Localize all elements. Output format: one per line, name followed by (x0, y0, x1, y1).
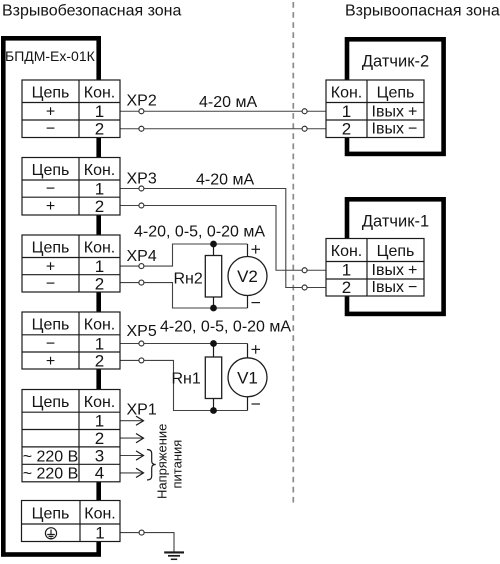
junction circle XP2.2 (139, 126, 144, 131)
svg-text:1: 1 (95, 257, 104, 276)
node dot V2 top (210, 241, 217, 248)
svg-text:4-20, 0-5, 0-20 мА: 4-20, 0-5, 0-20 мА (134, 224, 265, 241)
wire XP4.1 to V2 top rail (120, 265, 139, 267)
svg-text:2: 2 (95, 352, 104, 371)
svg-text:2: 2 (95, 197, 104, 216)
node dot V1 top (210, 340, 217, 347)
svg-text:−: − (408, 279, 417, 296)
svg-text:Кон.: Кон. (84, 506, 116, 523)
sensor table Датчик-2 (326, 80, 424, 138)
svg-text:~ 220 В: ~ 220 В (23, 466, 79, 483)
svg-text:4-20 мА: 4-20 мА (199, 94, 257, 111)
svg-text:1: 1 (95, 524, 104, 543)
resistor Rн1 (213, 344, 215, 358)
svg-text:2: 2 (95, 275, 104, 294)
junction circle XP4.2 (139, 280, 144, 285)
svg-text:−: − (46, 276, 55, 293)
zone boundary dashed line (292, 2, 294, 506)
svg-text:Взрывобезопасная зона: Взрывобезопасная зона (2, 3, 182, 20)
svg-text:1: 1 (95, 412, 104, 431)
terminal table XP2 (22, 80, 120, 138)
XP1 arrow pin4 (120, 472, 143, 474)
brace power pins (147, 450, 156, 481)
svg-text:Датчик-1: Датчик-1 (362, 212, 429, 230)
junction circle Датчик-1.1 (302, 268, 307, 273)
svg-text:3: 3 (95, 446, 104, 465)
svg-text:Цепь: Цепь (32, 85, 70, 102)
plus sign V1 (252, 348, 261, 350)
svg-text:XP5: XP5 (127, 323, 157, 340)
svg-text:Iвых: Iвых (372, 121, 404, 138)
svg-text:Кон.: Кон. (84, 317, 116, 334)
svg-text:+: + (46, 259, 55, 276)
svg-text:+: + (46, 198, 55, 215)
svg-text:+: + (408, 262, 417, 279)
minus sign V1 (252, 403, 261, 405)
svg-text:XP3: XP3 (127, 171, 157, 188)
svg-text:Кон.: Кон. (331, 243, 363, 260)
svg-text:Цепь: Цепь (32, 394, 70, 411)
svg-text:Кон.: Кон. (84, 162, 116, 179)
svg-text:Rн2: Rн2 (174, 271, 203, 288)
svg-text:V2: V2 (237, 267, 258, 286)
device box БПДМ-Ex-01К (3, 38, 98, 554)
svg-text:Взрывоопасная зона: Взрывоопасная зона (345, 3, 500, 20)
svg-text:1: 1 (342, 261, 351, 280)
svg-text:1: 1 (342, 102, 351, 121)
svg-text:4: 4 (95, 464, 104, 483)
wire XP3.2 to Датчик-1.1 (120, 205, 139, 207)
wire XP4.2 to V2 bottom rail (120, 282, 139, 284)
svg-text:питания: питания (170, 440, 185, 489)
junction circle XP5.2 (139, 358, 144, 363)
wire XP3.1 to Датчик-1.2 (120, 188, 139, 190)
svg-text:Кон.: Кон. (84, 240, 116, 257)
svg-text:Цепь: Цепь (377, 85, 415, 102)
terminal table XP1 (22, 390, 120, 482)
svg-text:4-20, 0-5, 0-20 мА: 4-20, 0-5, 0-20 мА (160, 319, 291, 336)
svg-text:Iвых: Iвых (372, 104, 404, 121)
wire XP5.1 to V1 top rail (120, 343, 139, 345)
terminal table XP3 (22, 158, 120, 216)
wire XP2.1 to Датчик-2.1 (120, 110, 139, 112)
svg-text:~ 220 В: ~ 220 В (23, 448, 79, 465)
svg-text:−: − (408, 121, 417, 138)
svg-text:Цепь: Цепь (32, 240, 70, 257)
terminal table ground (22, 501, 121, 542)
svg-text:Iвых: Iвых (372, 279, 404, 296)
voltmeter V2 (247, 244, 249, 257)
svg-text:2: 2 (342, 278, 351, 297)
svg-text:−: − (46, 336, 55, 353)
svg-text:−: − (46, 181, 55, 198)
svg-text:БПДМ-Ex-01К: БПДМ-Ex-01К (5, 48, 96, 64)
svg-text:XP4: XP4 (127, 248, 157, 265)
svg-text:Цепь: Цепь (32, 506, 70, 523)
svg-text:2: 2 (95, 120, 104, 139)
junction circle Датчик-2.1 (302, 109, 307, 114)
svg-text:XP1: XP1 (127, 402, 157, 419)
node dot V1 bottom (210, 407, 217, 414)
junction circle XP4.1 (139, 264, 144, 269)
svg-text:Цепь: Цепь (32, 317, 70, 334)
wire ground pin (120, 532, 139, 534)
XP1 arrow pin1 (120, 420, 143, 422)
svg-text:Кон.: Кон. (84, 85, 116, 102)
svg-text:XP2: XP2 (127, 93, 157, 110)
svg-text:+: + (46, 104, 55, 121)
terminal table XP4 (22, 235, 120, 292)
ground symbol (164, 551, 184, 553)
svg-text:−: − (46, 121, 55, 138)
svg-text:+: + (46, 353, 55, 370)
terminal table XP5 (22, 312, 120, 369)
svg-text:Кон.: Кон. (84, 394, 116, 411)
svg-text:2: 2 (95, 429, 104, 448)
earth symbol in table (45, 528, 56, 539)
svg-text:Кон.: Кон. (331, 85, 363, 102)
svg-text:1: 1 (95, 180, 104, 199)
svg-text:Цепь: Цепь (32, 162, 70, 179)
junction circle ground (139, 530, 144, 535)
wire XP5.2 to V1 bottom rail (120, 359, 139, 361)
minus sign V2 (252, 302, 261, 304)
junction circle XP3.2 (139, 203, 144, 208)
sensor table Датчик-1 (326, 239, 424, 297)
sensor box Датчик-1 (347, 199, 444, 314)
svg-text:1: 1 (95, 102, 104, 121)
svg-text:Iвых: Iвых (372, 262, 404, 279)
XP1 arrow pin3 (120, 455, 143, 457)
svg-text:Датчик-2: Датчик-2 (362, 52, 429, 70)
svg-text:V1: V1 (237, 368, 258, 387)
junction circle Датчик-1.2 (302, 285, 307, 290)
junction circle XP3.1 (139, 186, 144, 191)
voltmeter V1 (247, 344, 249, 358)
resistor Rн2 (213, 244, 215, 256)
svg-text:2: 2 (342, 120, 351, 139)
junction circle XP5.1 (139, 341, 144, 346)
plus sign V2 (252, 248, 261, 250)
svg-text:Напряжение: Напряжение (155, 424, 170, 499)
svg-text:4-20 мА: 4-20 мА (196, 172, 254, 189)
svg-text:+: + (408, 104, 417, 121)
wire XP2.2 to Датчик-2.2 (120, 128, 139, 130)
node dot V2 bottom (210, 305, 217, 312)
junction circle XP2.1 (139, 109, 144, 114)
svg-text:Цепь: Цепь (377, 243, 415, 260)
XP1 arrow pin2 (120, 437, 143, 439)
junction circle Датчик-2.2 (302, 126, 307, 131)
sensor box Датчик-2 (347, 39, 444, 154)
svg-text:Rн1: Rн1 (172, 371, 201, 388)
